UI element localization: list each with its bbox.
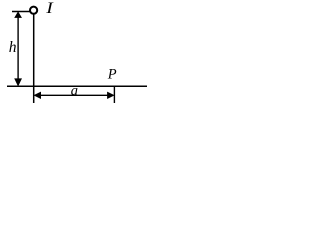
svg-text:I: I xyxy=(45,0,54,17)
dimension h: vertical double-arrow xyxy=(15,12,21,85)
svg-text:a: a xyxy=(71,83,78,99)
conductor plane line xyxy=(7,85,147,87)
extension line at P xyxy=(113,87,115,103)
dimension a: horizontal double-arrow xyxy=(35,92,114,98)
svg-text:h: h xyxy=(9,39,17,56)
current source I (circle) xyxy=(30,7,37,14)
wire: top horizontal lead xyxy=(12,11,30,13)
svg-text:P: P xyxy=(107,66,117,82)
wire: vertical lead from source down through plane xyxy=(33,14,35,103)
